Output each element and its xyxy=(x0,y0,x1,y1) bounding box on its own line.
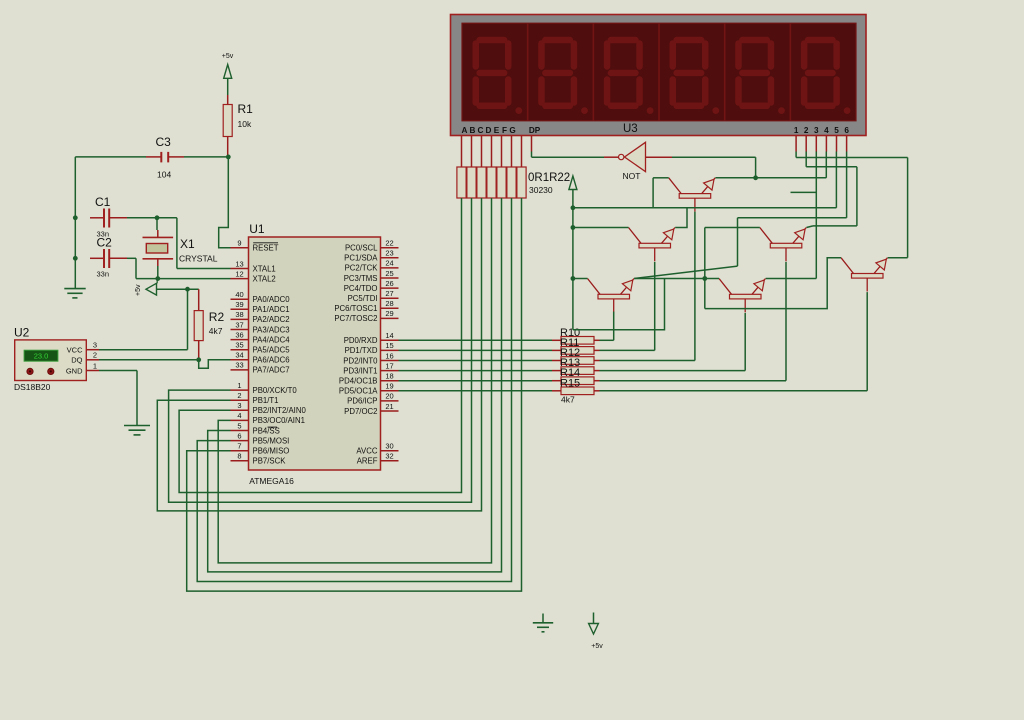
node Q2 collector junction xyxy=(571,225,576,230)
wire Q2 collector xyxy=(573,227,629,229)
wire pin1 to Q6 emitter xyxy=(796,152,908,258)
display segment pins A-G, DP (left pin stubs) xyxy=(462,136,532,167)
svg-text:5: 5 xyxy=(237,421,241,430)
svg-text:A: A xyxy=(462,126,468,135)
wire Q2 base to R11 xyxy=(600,262,655,351)
svg-text:XTAL2: XTAL2 xyxy=(253,274,276,283)
svg-text:PD7/OC2: PD7/OC2 xyxy=(344,407,377,416)
resistor pack labels (overlapping R16..R22 330) xyxy=(528,172,570,195)
display segment pin labels ABCDEFG DP xyxy=(462,126,541,135)
wire segment F (resistor to PB pin) xyxy=(197,198,511,582)
svg-text:24: 24 xyxy=(385,259,393,268)
ground (bottom centre) xyxy=(533,614,553,632)
capacitor C3 104 xyxy=(146,152,184,163)
transistor Q6 (digit driver) xyxy=(841,258,888,292)
svg-text:28: 28 xyxy=(385,299,393,308)
resistor pack R16-R22 (segment resistors, 330) xyxy=(457,167,526,198)
svg-text:1: 1 xyxy=(794,126,799,135)
svg-text:4: 4 xyxy=(237,411,241,420)
svg-text:40: 40 xyxy=(235,290,243,299)
node Q4 collector junction xyxy=(571,276,576,281)
node Q1 emitter junction xyxy=(753,175,758,180)
svg-text:6: 6 xyxy=(237,431,241,440)
svg-text:2: 2 xyxy=(804,126,809,135)
svg-text:13: 13 xyxy=(235,259,243,268)
svg-text:18: 18 xyxy=(385,372,393,381)
wire Q4 collector xyxy=(573,278,588,280)
svg-text:NOT: NOT xyxy=(623,171,641,181)
capacitor C1 33n xyxy=(90,209,127,228)
svg-text:PA7/ADC7: PA7/ADC7 xyxy=(253,366,290,375)
svg-text:25: 25 xyxy=(385,269,393,278)
svg-text:PC5/TDI: PC5/TDI xyxy=(348,294,378,303)
node R1/C3/RESET junction xyxy=(226,155,231,160)
svg-text:27: 27 xyxy=(385,289,393,298)
svg-text:PC6/TOSC1: PC6/TOSC1 xyxy=(334,304,377,313)
svg-text:PA2/ADC2: PA2/ADC2 xyxy=(253,315,290,324)
U2 pins VCC DQ GND xyxy=(66,341,99,376)
wire U2 DQ to PA6 xyxy=(99,360,231,369)
label R11 xyxy=(560,337,579,349)
label U2 xyxy=(14,326,30,340)
label U1 xyxy=(249,222,265,236)
resistor R12 4k7 xyxy=(552,357,600,365)
svg-text:RESET: RESET xyxy=(253,244,279,253)
svg-text:20: 20 xyxy=(385,392,393,401)
svg-text:VCC: VCC xyxy=(67,346,83,355)
label C1 xyxy=(95,195,111,209)
label R10 xyxy=(560,327,580,339)
wire rail A (Q4 emitter to Q5 collector) xyxy=(634,278,719,280)
wire C3 line xyxy=(75,156,228,158)
wire Q6 base to R15 xyxy=(600,292,868,391)
svg-text:12: 12 xyxy=(235,269,243,278)
svg-text:3: 3 xyxy=(93,341,97,350)
resistor R13 4k7 xyxy=(552,367,600,375)
svg-text:32: 32 xyxy=(385,452,393,461)
svg-text:PD5/OC1A: PD5/OC1A xyxy=(339,387,378,396)
power +5v (top arrow) xyxy=(222,53,234,95)
wire +5v to R2 top xyxy=(157,288,199,290)
svg-text:10k: 10k xyxy=(238,119,252,129)
resistor R10 4k7 xyxy=(552,337,600,345)
display digit 1 (off segments) xyxy=(473,23,528,121)
svg-text:PB0/XCK/T0: PB0/XCK/T0 xyxy=(253,386,298,395)
transistor Q1 (digit driver) xyxy=(669,178,716,212)
svg-text:3: 3 xyxy=(237,401,241,410)
svg-text:C3: C3 xyxy=(156,135,172,149)
svg-text:B: B xyxy=(470,126,476,135)
wire +5v vertical rail xyxy=(573,190,665,330)
svg-text:CRYSTAL: CRYSTAL xyxy=(179,254,218,264)
display digit 4 (off segments) xyxy=(670,23,725,121)
svg-text:26: 26 xyxy=(385,279,393,288)
svg-text:PC0/SCL: PC0/SCL xyxy=(345,244,378,253)
svg-text:16: 16 xyxy=(385,351,393,360)
wire segment C (resistor to PB pin) xyxy=(157,198,481,511)
svg-text:PA6/ADC6: PA6/ADC6 xyxy=(253,356,290,365)
label C2 xyxy=(97,236,113,250)
svg-text:D: D xyxy=(486,126,492,135)
svg-text:0R1R22: 0R1R22 xyxy=(528,172,570,184)
svg-text:4k7: 4k7 xyxy=(561,395,575,405)
svg-text:PD0/RXD: PD0/RXD xyxy=(344,336,378,345)
display digit pin labels 123456 xyxy=(794,126,850,135)
label 33n (C2) xyxy=(97,270,110,279)
svg-text:21: 21 xyxy=(385,402,393,411)
6-digit 7-segment display module xyxy=(451,15,867,136)
wire segment A (resistor to PB pin) xyxy=(179,198,461,493)
capacitor C2 33n xyxy=(90,249,127,268)
svg-text:39: 39 xyxy=(235,300,243,309)
transistor Q4 (digit driver) xyxy=(588,279,635,313)
wire C2 to crystal bottom and XTAL2 xyxy=(127,258,231,278)
node C2 left junction xyxy=(73,256,78,261)
wire Q4 base to R10 xyxy=(600,312,614,341)
svg-text:4k7: 4k7 xyxy=(209,326,223,336)
resistor R15 4k7 xyxy=(552,387,600,395)
wire U2 GND to ground xyxy=(99,371,137,426)
svg-text:36: 36 xyxy=(235,330,243,339)
svg-text:R1: R1 xyxy=(238,102,254,116)
label 4k7 (R2) xyxy=(209,326,223,336)
power +5v (arrow above transistor rail) xyxy=(569,176,577,190)
label 10k xyxy=(238,119,252,129)
wire segment D (resistor to PB pin) xyxy=(218,198,491,563)
label U3 xyxy=(623,123,638,135)
node rail B junction xyxy=(571,205,576,210)
svg-text:PD4/OC1B: PD4/OC1B xyxy=(339,377,378,386)
svg-text:G: G xyxy=(509,126,515,135)
wire segment B (resistor to PB pin) xyxy=(169,198,472,502)
label R13 xyxy=(560,357,580,369)
svg-text:30230: 30230 xyxy=(529,185,553,195)
wire rail B (pin5) xyxy=(573,152,837,228)
ground (below U2) xyxy=(124,426,150,435)
wire segment G (resistor to PB pin) xyxy=(187,198,522,591)
svg-text:PA0/ADC0: PA0/ADC0 xyxy=(253,295,291,304)
svg-text:PA5/ADC5: PA5/ADC5 xyxy=(253,346,291,355)
svg-text:PC2/TCK: PC2/TCK xyxy=(345,264,379,273)
svg-text:33n: 33n xyxy=(97,270,110,279)
svg-text:1: 1 xyxy=(93,361,97,370)
label R14 xyxy=(560,367,580,379)
label 104 xyxy=(157,170,171,180)
svg-text:C: C xyxy=(478,126,484,135)
wire Q1 emitter rail to pin4 xyxy=(715,152,826,178)
svg-text:U2: U2 xyxy=(14,326,30,340)
label C3 xyxy=(156,135,172,149)
svg-text:AVCC: AVCC xyxy=(356,447,377,456)
ground (below C2) xyxy=(64,289,85,298)
label R15 xyxy=(560,377,580,389)
wire pin2 to Q3 emitter xyxy=(806,152,857,228)
svg-text:R15: R15 xyxy=(560,377,580,389)
label X1 xyxy=(180,237,195,251)
power +5v (bottom down arrow) xyxy=(589,613,604,651)
display digit 6 (off segments) xyxy=(801,37,851,114)
label 33n (C1) xyxy=(97,230,110,239)
svg-text:PB5/MOSI: PB5/MOSI xyxy=(253,436,290,445)
svg-text:PA1/ADC1: PA1/ADC1 xyxy=(253,305,290,314)
wire to U2 VCC xyxy=(99,289,188,350)
label R1 xyxy=(238,102,254,116)
wire stub near pin3 xyxy=(791,191,817,193)
wire Q1 base to R12 xyxy=(600,212,695,361)
resistor R11 4k7 xyxy=(552,347,600,355)
svg-text:GND: GND xyxy=(66,366,83,375)
svg-text:30: 30 xyxy=(385,442,393,451)
node crystal/XTAL2 junction xyxy=(155,276,160,281)
crystal X1 xyxy=(143,230,174,266)
label ATMEGA16 xyxy=(249,476,294,486)
svg-text:PB2/INT2/AIN0: PB2/INT2/AIN0 xyxy=(253,406,307,415)
label R2 xyxy=(209,310,225,324)
svg-text:PD2/INT0: PD2/INT0 xyxy=(343,356,378,365)
svg-text:9: 9 xyxy=(237,239,241,248)
svg-text:38: 38 xyxy=(235,310,243,319)
svg-text:104: 104 xyxy=(157,170,171,180)
sensor U2 DS18B20 body xyxy=(15,340,87,381)
label R12 xyxy=(560,347,580,359)
wire RESET (R1 to pin 9) xyxy=(219,157,231,248)
svg-text:PC4/TDO: PC4/TDO xyxy=(344,284,378,293)
U1 right pins with numbers and names xyxy=(334,239,398,466)
svg-text:PD6/ICP: PD6/ICP xyxy=(347,397,377,406)
svg-text:4: 4 xyxy=(824,126,829,135)
label DS18B20 xyxy=(14,382,51,392)
wire left rail (C3/C1/C2 to ground) xyxy=(74,157,76,289)
svg-text:R2: R2 xyxy=(209,310,225,324)
svg-text:C2: C2 xyxy=(97,236,113,250)
node Q3/Q5 collector junction xyxy=(702,276,707,281)
svg-text:PB6/MISO: PB6/MISO xyxy=(253,447,290,456)
transistor Q2 (digit driver) xyxy=(629,228,676,262)
resistor R2 4k7 xyxy=(194,289,203,360)
svg-text:5: 5 xyxy=(834,126,839,135)
svg-text:PB1/T1: PB1/T1 xyxy=(253,396,279,405)
node C1/crystal junction xyxy=(155,215,160,220)
svg-text:PB7/SCK: PB7/SCK xyxy=(253,457,287,466)
svg-text:34: 34 xyxy=(235,351,243,360)
svg-text:7: 7 xyxy=(237,442,241,451)
svg-text:2: 2 xyxy=(93,351,97,360)
svg-text:PC3/TMS: PC3/TMS xyxy=(344,274,378,283)
svg-text:C1: C1 xyxy=(95,195,111,209)
wire DP to NOT output xyxy=(532,152,605,158)
wire Q5 base to R13 xyxy=(600,313,746,371)
svg-text:X1: X1 xyxy=(180,237,195,251)
svg-text:17: 17 xyxy=(385,361,393,370)
svg-text:23: 23 xyxy=(385,249,393,258)
svg-text:PD3/INT1: PD3/INT1 xyxy=(343,366,377,375)
node VCC drop junction xyxy=(185,287,190,292)
node C1 left junction xyxy=(73,215,78,220)
svg-text:AREF: AREF xyxy=(357,457,378,466)
wire C1 to crystal top and XTAL1 xyxy=(127,218,231,269)
svg-text:33: 33 xyxy=(235,361,243,370)
node R2/DQ junction xyxy=(196,357,201,362)
svg-text:15: 15 xyxy=(385,341,393,350)
svg-text:DP: DP xyxy=(529,126,541,135)
svg-text:DQ: DQ xyxy=(71,356,82,365)
svg-text:U3: U3 xyxy=(623,123,638,135)
svg-text:PD1/TXD: PD1/TXD xyxy=(345,346,378,355)
svg-text:U1: U1 xyxy=(249,222,265,236)
label 4k7 (R10-R15 value) xyxy=(561,395,575,405)
wire pin6 to Q4 emitter (diagonal) xyxy=(634,152,846,279)
svg-text:PB3/OC0/AIN1: PB3/OC0/AIN1 xyxy=(253,416,305,425)
wire Q1 collector to rail B xyxy=(653,178,669,208)
wire Q3 collector xyxy=(705,228,760,309)
svg-text:29: 29 xyxy=(385,309,393,318)
svg-text:23.0: 23.0 xyxy=(34,352,49,361)
svg-text:19: 19 xyxy=(385,382,393,391)
svg-text:+5v: +5v xyxy=(591,643,603,650)
svg-text:22: 22 xyxy=(385,239,393,248)
svg-text:2: 2 xyxy=(237,391,241,400)
svg-text:6: 6 xyxy=(844,126,849,135)
svg-text:PA3/ADC3: PA3/ADC3 xyxy=(253,325,290,334)
wire Q3 base to R14 xyxy=(600,262,787,381)
resistor R1 10k xyxy=(223,95,232,157)
svg-text:35: 35 xyxy=(235,341,243,350)
svg-text:E: E xyxy=(494,126,500,135)
svg-text:PA4/ADC4: PA4/ADC4 xyxy=(253,335,291,344)
svg-text:3: 3 xyxy=(814,126,819,135)
svg-text:ATMEGA16: ATMEGA16 xyxy=(249,476,294,486)
power +5v (left arrow near XTAL2) xyxy=(135,279,157,296)
svg-text:8: 8 xyxy=(237,452,241,461)
U1 left pins with numbers and names xyxy=(231,239,307,466)
svg-text:PC7/TOSC2: PC7/TOSC2 xyxy=(334,314,377,323)
svg-text:+5v: +5v xyxy=(222,53,234,60)
svg-text:PC1/SDA: PC1/SDA xyxy=(344,254,378,263)
wire segment E (resistor to PB pin) xyxy=(208,198,502,572)
display digit 2 (off segments) xyxy=(538,23,593,121)
svg-text:XTAL1: XTAL1 xyxy=(253,264,276,273)
display digit 3 (off segments) xyxy=(604,23,659,121)
svg-text:F: F xyxy=(502,126,507,135)
wire Q6 collector xyxy=(705,258,841,309)
label CRYSTAL xyxy=(179,254,218,264)
svg-text:PB4/SS: PB4/SS xyxy=(253,426,280,435)
transistor Q5 (digit driver) xyxy=(719,279,766,313)
display digit pins 1-6 (right pin stubs) xyxy=(796,136,847,152)
wire pin3 to Q5 emitter xyxy=(766,152,817,279)
resistor R14 4k7 xyxy=(552,377,600,385)
svg-text:1: 1 xyxy=(237,381,241,390)
svg-text:+5v: +5v xyxy=(135,284,142,296)
svg-text:37: 37 xyxy=(235,320,243,329)
svg-text:DS18B20: DS18B20 xyxy=(14,382,51,392)
label NOT xyxy=(623,171,641,181)
wire NOT input rail xyxy=(672,157,756,178)
transistor Q3 (digit driver) xyxy=(760,228,807,262)
wires PD0-PD5 to R10-R15 xyxy=(399,340,553,391)
display digit 5 (off segments) xyxy=(735,23,790,121)
NOT gate U3 xyxy=(604,142,672,171)
IC U1 ATMEGA16 body xyxy=(249,237,381,470)
svg-text:14: 14 xyxy=(385,331,393,340)
